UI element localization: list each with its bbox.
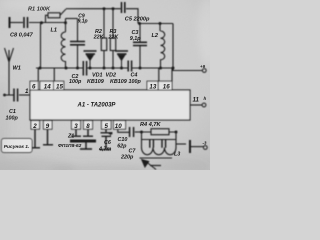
node dot R3 tap xyxy=(112,7,115,10)
node dot L1 bottom xyxy=(65,67,68,70)
capacitor C8 xyxy=(24,17,28,28)
svg-text:C4: C4 xyxy=(131,72,138,78)
svg-text:11: 11 xyxy=(193,96,200,103)
svg-text:C5 2200p: C5 2200p xyxy=(125,17,150,23)
svg-text:14: 14 xyxy=(44,83,51,90)
pin box 6 xyxy=(30,81,38,90)
wire C3 branch xyxy=(139,24,141,69)
wire C5 right to bend xyxy=(126,9,138,24)
wire antenna to C1 xyxy=(5,94,14,96)
svg-text:Z1: Z1 xyxy=(67,134,74,140)
node dot C3 branch bottom xyxy=(139,67,142,70)
svg-text:22K: 22K xyxy=(107,35,119,41)
svg-text:-3: -3 xyxy=(203,141,207,146)
wire R3 bottom lead xyxy=(112,51,114,69)
svg-text:1: 1 xyxy=(25,88,29,95)
svg-text:R4 4,7K: R4 4,7K xyxy=(140,122,161,128)
wire C1 to pin1 xyxy=(19,94,30,96)
wire C8 to node xyxy=(29,22,66,24)
filter Z1 plate xyxy=(70,140,96,143)
wire R2 bottom lead xyxy=(103,51,105,69)
wire upper rail to C5 xyxy=(66,8,121,10)
tank inner top wire xyxy=(142,139,177,141)
svg-text:2: 2 xyxy=(32,123,37,130)
node dot L2 bottom xyxy=(159,67,162,70)
node dot supply branch xyxy=(172,67,175,70)
wire pin10 to C10 xyxy=(118,129,129,132)
pin box 2 xyxy=(31,121,40,130)
wire tank to jack xyxy=(176,143,186,145)
inductor L1 xyxy=(61,19,65,68)
wire jack xyxy=(191,146,204,148)
main middle row wire xyxy=(36,67,173,69)
wire pin2 ground xyxy=(30,129,40,148)
jack bar xyxy=(189,140,191,153)
core adjust bar xyxy=(140,157,173,159)
wire pin13 riser xyxy=(158,68,160,81)
wire pin9 ground xyxy=(43,129,53,145)
node dot tank right xyxy=(175,131,178,134)
antenna W1 xyxy=(5,48,14,95)
node dot VD2 lead xyxy=(120,67,123,70)
node dot C3 tap xyxy=(138,22,141,25)
svg-text:22K: 22K xyxy=(93,35,105,41)
capacitor C6 xyxy=(100,129,113,149)
svg-text:10: 10 xyxy=(115,123,122,130)
svg-text:ФП1П8-62: ФП1П8-62 xyxy=(58,143,82,149)
pin box 13 xyxy=(147,81,158,90)
resistor R3 xyxy=(110,38,115,51)
svg-text:3: 3 xyxy=(74,123,78,130)
svg-text:C8 0,047: C8 0,047 xyxy=(10,33,34,39)
scan shading blobs xyxy=(0,0,218,179)
varicap VD2 xyxy=(115,51,128,68)
svg-text:C6: C6 xyxy=(104,140,112,146)
svg-text:15: 15 xyxy=(56,83,63,90)
svg-text:C10: C10 xyxy=(118,137,128,143)
capacitor C7 plates xyxy=(150,140,166,148)
svg-text:9,1p: 9,1p xyxy=(130,36,141,42)
svg-text:9: 9 xyxy=(46,123,50,130)
node dot R3 lead xyxy=(112,67,115,70)
svg-text:VD1: VD1 xyxy=(92,72,103,78)
pin box 15 xyxy=(54,81,64,90)
pin box 8 xyxy=(84,121,93,130)
node dot C9 branch xyxy=(76,67,79,70)
svg-text:A1 - TA2003P: A1 - TA2003P xyxy=(77,102,117,108)
svg-text:9,1p: 9,1p xyxy=(78,18,88,24)
antenna input terminal xyxy=(9,17,11,28)
capacitor C10 xyxy=(130,127,134,137)
capacitor C2 xyxy=(83,61,86,76)
wire top-left node xyxy=(11,22,24,24)
node dot VD1 lead xyxy=(89,67,92,70)
capacitor C3 xyxy=(133,42,147,45)
wire C9 branch lower xyxy=(77,45,79,68)
pin box 9 xyxy=(44,121,53,130)
svg-text:KB109: KB109 xyxy=(87,79,104,85)
resistor R1 xyxy=(48,13,60,18)
wire C9 branch upper xyxy=(77,19,79,42)
wire pin6 riser xyxy=(37,68,39,81)
filter Z1 ground xyxy=(80,143,92,150)
inductor L2 xyxy=(160,24,165,68)
capacitor C1 xyxy=(14,89,18,102)
pin box 5 xyxy=(102,121,112,130)
IC A1 TA2003P body xyxy=(30,90,190,120)
pin box 10 xyxy=(114,121,126,130)
wire pin11 out xyxy=(190,104,202,106)
capacitor C4 xyxy=(128,61,131,72)
wire supply stub xyxy=(173,68,202,71)
wire pin15 riser xyxy=(53,68,55,81)
svg-text:L3: L3 xyxy=(174,151,180,157)
node dot antenna xyxy=(3,94,6,97)
plus sign C6 xyxy=(109,132,113,136)
node dot R2 tap xyxy=(103,7,106,10)
svg-text:5: 5 xyxy=(105,123,109,130)
wire C10 to tank xyxy=(135,131,142,133)
ground mark tank xyxy=(150,165,161,167)
svg-text:VD2: VD2 xyxy=(106,72,117,78)
inductor L3 xyxy=(142,148,177,155)
node dot pin6 riser xyxy=(39,67,42,70)
node dot L2 tap xyxy=(159,22,162,25)
svg-text:W1: W1 xyxy=(13,66,21,72)
svg-text:62p: 62p xyxy=(117,144,127,150)
terminal supply circle xyxy=(202,69,206,73)
svg-text:L2: L2 xyxy=(152,33,159,39)
pin box 14 xyxy=(40,81,54,90)
core adjust arrow xyxy=(147,162,157,170)
svg-text:100p: 100p xyxy=(129,79,142,85)
svg-text:KB109: KB109 xyxy=(110,79,127,85)
capacitor C5 xyxy=(122,2,125,13)
svg-text:h: h xyxy=(204,96,207,101)
node dot R2 lead xyxy=(103,67,106,70)
tank rails xyxy=(142,132,177,148)
wire R1 right lead xyxy=(60,9,66,15)
svg-text:4,7m: 4,7m xyxy=(98,147,111,153)
wire R3 riser xyxy=(112,9,114,38)
wire oscillator top rail xyxy=(138,23,173,25)
terminal out circle xyxy=(202,103,206,107)
node B (L1 top junction) xyxy=(64,21,67,24)
figure caption box xyxy=(2,139,33,153)
capacitor C9 xyxy=(70,42,85,45)
resistor R4 xyxy=(151,129,169,135)
resistor R2 xyxy=(101,38,106,51)
svg-text:L1: L1 xyxy=(51,28,58,34)
svg-text:+9: +9 xyxy=(200,64,206,69)
wire R1 left lead xyxy=(46,15,49,22)
wire R2 riser xyxy=(103,9,105,38)
wire right vertical pin16 xyxy=(172,24,173,82)
terminal jack circle xyxy=(203,146,207,150)
wire R4 leads xyxy=(142,131,177,133)
svg-text:13: 13 xyxy=(149,83,156,90)
svg-text:100p: 100p xyxy=(69,79,82,85)
paper background xyxy=(0,0,210,170)
wire L1 top link xyxy=(66,18,78,20)
pin box 3 xyxy=(72,121,81,130)
svg-text:6: 6 xyxy=(32,83,36,90)
node A (antenna/R1 junction) xyxy=(40,21,43,24)
svg-text:16: 16 xyxy=(163,83,170,90)
svg-text:C1: C1 xyxy=(9,109,16,115)
wire node to row xyxy=(40,23,42,69)
filter Z1 leads xyxy=(71,129,93,136)
svg-text:8: 8 xyxy=(86,123,90,130)
svg-text:220p: 220p xyxy=(120,154,134,160)
node dot tank left xyxy=(140,131,143,134)
varicap VD1 xyxy=(84,51,97,68)
pin box 16 xyxy=(158,81,172,90)
